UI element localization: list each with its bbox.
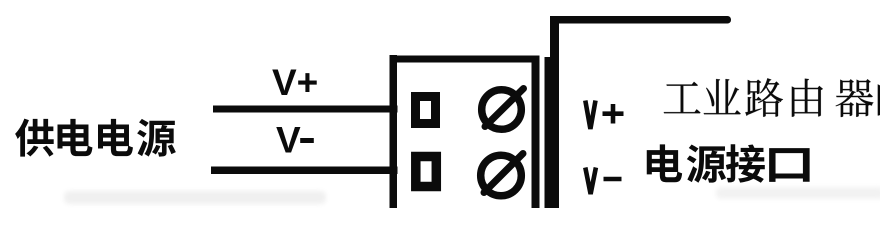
svg-text:V+: V+ [272,62,318,103]
wire V- [211,167,398,175]
terminal block TB1 outline [390,55,540,208]
terminal pin square 2 [416,157,437,187]
terminal pin square 1 [416,97,436,124]
terminal block inner edge line [545,57,553,208]
label V− (right terminal) [585,168,621,195]
wire V+ [213,106,398,113]
label V+ (right terminal) [585,101,623,130]
label 供电电源 (power supply) [15,119,176,157]
router chassis outline [550,16,731,208]
label 电源接口 (power interface) [647,144,810,183]
svg-text:V: V [276,120,301,161]
screw terminal 2 [481,154,523,196]
label 工业路由器的 (industrial router) [664,78,880,117]
label V- (left wire) [276,120,314,161]
screw terminal 1 [482,89,524,130]
